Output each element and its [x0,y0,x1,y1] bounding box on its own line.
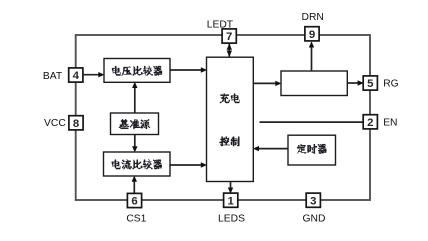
pin 4 BAT [69,68,83,82]
svg-text:4: 4 [73,70,80,82]
outer boundary wire [76,35,370,200]
svg-text:7: 7 [226,31,232,43]
wire reference to current comparator [134,134,136,147]
wire driver to pin5 RG [347,82,358,84]
svg-text:DRN: DRN [302,12,324,23]
wire charge-control to driver [253,82,275,84]
svg-text:LEDT: LEDT [207,19,234,30]
block U6 timer [288,135,336,165]
pin 5 RG [363,76,377,90]
svg-text:6: 6 [131,196,137,208]
pin 3 GND [306,193,320,207]
svg-text:9: 9 [309,29,315,41]
block U5 output driver (unlabeled) [281,71,347,96]
block U1 voltage comparator [104,59,170,83]
pin 2 EN [363,115,377,129]
svg-text:8: 8 [73,118,79,130]
block U2 reference source [111,113,159,135]
svg-text:3: 3 [310,195,316,207]
svg-text:GND: GND [303,214,326,225]
svg-text:EN: EN [383,118,397,129]
block U3 current comparator [104,152,171,176]
wire pin6 CS1 to current comparator [133,181,135,193]
svg-text:5: 5 [367,78,374,90]
svg-text:VCC: VCC [44,118,66,129]
svg-text:RG: RG [383,79,398,90]
wire pin7 LEDT to charge-control, double arrow [228,43,230,57]
pin 6 CS1 [127,193,141,207]
pin 8 VCC [69,116,83,130]
pin 1 LEDS [224,193,238,207]
wire timer to charge-control [259,148,289,150]
wire charge-control to pin1 LEDS [230,182,232,189]
wire BAT pin4 to voltage comparator [83,74,99,76]
wire reference to voltage comparator [134,88,136,115]
svg-text:BAT: BAT [43,71,63,82]
wire voltage comparator to charge-control [170,69,201,71]
svg-text:CS1: CS1 [126,214,146,225]
block U4 charge control [207,57,254,181]
wire EN pin2 to charge-control [260,121,364,123]
svg-text:1: 1 [228,195,235,207]
wire driver to pin9 DRN [311,46,313,71]
pin 9 DRN [305,27,319,41]
svg-text:LEDS: LEDS [218,214,245,225]
svg-text:2: 2 [367,117,373,129]
wire current comparator to charge-control [170,164,201,166]
pin 7 LEDT [222,29,236,43]
